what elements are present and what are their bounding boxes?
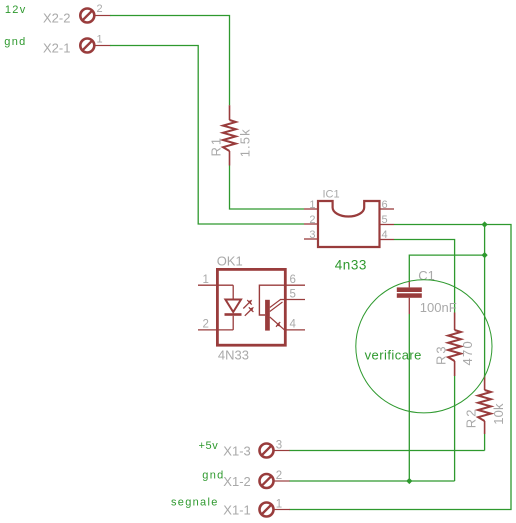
svg-text:2: 2	[203, 319, 209, 331]
svg-text:2: 2	[276, 470, 282, 482]
LED light arrow 2	[245, 307, 254, 316]
wire +5v rail	[290, 450, 485, 452]
junction dot C	[406, 478, 412, 484]
svg-text:100nF: 100nF	[420, 300, 457, 315]
pin X2-2	[80, 9, 110, 23]
IC1 pin numbers	[309, 199, 315, 241]
LED inside OK1	[225, 285, 242, 330]
svg-text:4: 4	[382, 229, 388, 241]
svg-text:X2-1: X2-1	[43, 40, 70, 55]
junction dot A	[482, 221, 488, 227]
optocoupler OK1 box	[217, 269, 285, 345]
svg-text:X1-2: X1-2	[223, 474, 250, 489]
IC1 pin stubs right	[380, 209, 395, 240]
OK1 pin 6 stub	[285, 284, 305, 286]
junction dot B	[482, 252, 488, 258]
svg-text:verificare: verificare	[365, 347, 422, 362]
capacitor C1	[397, 281, 422, 314]
svg-text:2: 2	[97, 3, 103, 15]
svg-text:X2-2: X2-2	[43, 10, 70, 25]
svg-text:10k: 10k	[491, 403, 506, 425]
pin X2-1	[80, 39, 110, 53]
svg-text:4: 4	[290, 319, 297, 331]
OK1 pin 1 stub	[198, 284, 233, 286]
svg-text:1: 1	[203, 274, 209, 286]
wire R1 bottom to IC1 pin1	[230, 166, 305, 210]
IC1 pin stubs left	[304, 209, 318, 239]
phototransistor base bar	[265, 300, 270, 331]
svg-text:12v: 12v	[5, 4, 27, 16]
svg-text:6: 6	[382, 199, 388, 211]
resistor R1	[223, 105, 236, 165]
svg-text:5: 5	[382, 214, 388, 226]
annotation circle verificare	[356, 280, 492, 413]
wire R2 bottom to +5v rail	[484, 434, 486, 451]
OK1 pin 5 stub	[280, 299, 305, 301]
phototransistor base bracket	[259, 285, 285, 315]
svg-text:3: 3	[276, 440, 282, 452]
OK1 pin 2 stub	[198, 329, 233, 331]
svg-text:R2: R2	[463, 408, 478, 429]
OK1 pin 4 stub	[285, 329, 305, 331]
svg-text:OK1: OK1	[217, 254, 243, 269]
svg-text:5: 5	[290, 289, 296, 301]
svg-text:IC1: IC1	[323, 189, 340, 201]
wire R3 bottom to gnd rail	[454, 376, 456, 481]
wire C1 bottom to gnd rail	[408, 314, 410, 481]
phototransistor collector lines	[270, 300, 283, 312]
svg-text:4n33: 4n33	[335, 257, 367, 272]
svg-text:segnale: segnale	[171, 497, 219, 509]
wire gnd: X2-1 to IC1 pin2	[110, 46, 304, 225]
op-amp/IC body IC1	[318, 201, 380, 247]
resistor R3	[448, 313, 461, 377]
wire IC1 pin4 to R3 top	[394, 240, 455, 313]
svg-text:R1: R1	[208, 136, 223, 157]
svg-text:4N33: 4N33	[218, 348, 249, 363]
resistor R2	[478, 376, 491, 435]
wire IC1 pin5 net to right edge and down to X1-1	[290, 225, 512, 510]
svg-text:470: 470	[460, 340, 475, 366]
svg-text:X1-3: X1-3	[223, 444, 250, 459]
wire gnd rail	[290, 480, 455, 482]
svg-text:gnd: gnd	[4, 36, 26, 48]
svg-text:6: 6	[290, 274, 296, 286]
pin X1-3	[260, 444, 291, 458]
svg-text:R3: R3	[433, 344, 448, 365]
svg-text:1.5k: 1.5k	[238, 128, 253, 157]
svg-text:2: 2	[309, 214, 315, 226]
pin X1-1	[260, 503, 291, 517]
phototransistor emitter with arrow	[270, 317, 285, 330]
wire 12v: X2-2 to R1 top	[110, 16, 230, 106]
wire junction branch down from pin5 net	[484, 225, 486, 376]
wire branch to C1 top	[409, 255, 484, 281]
svg-text:3: 3	[309, 229, 315, 241]
svg-text:1: 1	[97, 34, 103, 46]
svg-text:gnd: gnd	[202, 470, 224, 482]
svg-text:X1-1: X1-1	[223, 503, 250, 518]
svg-text:C1: C1	[418, 268, 435, 283]
svg-text:+5v: +5v	[199, 440, 219, 452]
pin X1-2	[260, 474, 291, 488]
svg-text:1: 1	[276, 498, 282, 510]
svg-text:1: 1	[309, 199, 315, 211]
LED light arrow 1	[243, 300, 252, 309]
